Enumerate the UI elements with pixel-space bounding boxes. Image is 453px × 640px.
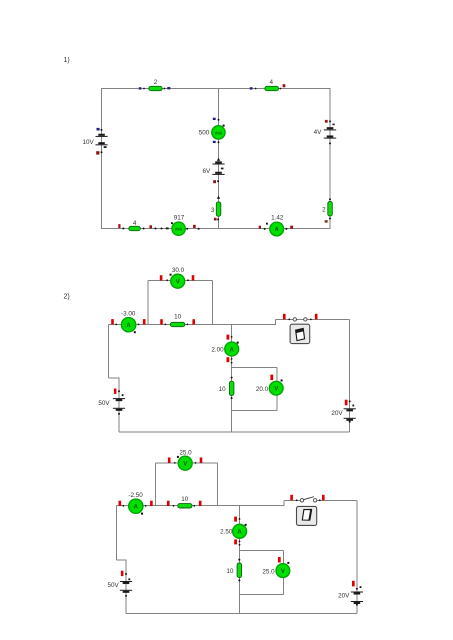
wire switch line left: [284, 499, 300, 501]
resistor 3 (middle): [211, 196, 221, 221]
svg-text:10V: 10V: [82, 139, 94, 146]
ammeter 2.50: [220, 517, 246, 546]
resistor 2 (right): [322, 198, 332, 222]
switch S (closed): [283, 314, 318, 321]
svg-text:4: 4: [270, 79, 274, 86]
ammeter -3.00: [111, 311, 145, 334]
wire subloop bottom: [232, 410, 277, 412]
wire subloop bottom: [239, 593, 283, 595]
wire top-loop top: [156, 462, 218, 464]
wire top-loop left leg: [147, 280, 149, 324]
battery 10V: [82, 128, 107, 155]
svg-text:4: 4: [133, 220, 137, 227]
voltmeter 20.0: [256, 375, 283, 396]
wire left leg upper: [108, 324, 110, 378]
wire main horizontal: [109, 323, 277, 325]
wire step up: [275, 319, 277, 324]
svg-text:30.0: 30.0: [172, 267, 185, 274]
wire top-loop right leg: [212, 280, 214, 324]
svg-text:3: 3: [211, 207, 215, 214]
svg-text:A: A: [126, 323, 131, 329]
voltmeter 25.0 (top): [168, 449, 202, 470]
wire middle branch: [238, 506, 240, 614]
svg-text:10: 10: [174, 314, 182, 321]
svg-text:10: 10: [181, 496, 189, 503]
switch key box: [290, 324, 310, 343]
svg-text:25.0: 25.0: [179, 449, 192, 456]
wire top: [102, 88, 331, 90]
wire subloop top: [239, 550, 283, 552]
wire top-loop right leg: [217, 463, 219, 506]
resistor 10 (vertical): [219, 377, 234, 400]
wire right leg: [349, 319, 351, 432]
ammeter 2.00: [211, 335, 238, 364]
svg-text:V: V: [274, 387, 278, 393]
battery 20V (c2): [331, 400, 355, 423]
svg-text:2: 2: [154, 79, 158, 86]
svg-text:2): 2): [64, 294, 70, 301]
resistor 10 (horizontal): [167, 496, 202, 508]
svg-text:1.42: 1.42: [271, 215, 284, 222]
voltmeter 25.0 (inner): [262, 557, 289, 577]
svg-text:-2.50: -2.50: [128, 492, 143, 499]
battery 20V (c3): [338, 581, 363, 606]
svg-text:2.50: 2.50: [220, 529, 233, 536]
svg-text:1): 1): [64, 57, 70, 64]
wire bottom: [126, 613, 357, 615]
resistor 10 (vertical): [226, 559, 241, 582]
svg-text:20.0: 20.0: [256, 386, 269, 393]
wire step up: [283, 500, 285, 505]
wire subloop right: [282, 551, 284, 595]
svg-text:2.00: 2.00: [211, 346, 224, 353]
wire top-loop left leg: [155, 463, 157, 506]
battery 50V (c3): [107, 571, 132, 597]
svg-text:25.0: 25.0: [262, 568, 275, 575]
battery 4V: [314, 120, 337, 144]
svg-text:A: A: [237, 530, 242, 536]
wire left leg upper: [115, 506, 117, 561]
ammeter -2.50: [119, 492, 153, 514]
resistor 4 (top): [250, 79, 286, 91]
resistor 10 (horizontal): [160, 314, 195, 327]
wire subloop right: [276, 368, 278, 411]
wire middle branch: [231, 324, 233, 432]
resistor 2 (top): [139, 79, 171, 91]
wire main horizontal: [116, 505, 284, 507]
wire subloop top: [232, 367, 277, 369]
wire left jog: [116, 559, 126, 561]
battery 50V (c2): [98, 389, 125, 415]
svg-text:2: 2: [322, 207, 326, 214]
wire left leg lower: [125, 560, 127, 614]
wire middle branch: [218, 89, 220, 229]
wire top-loop top: [148, 279, 213, 281]
svg-text:V: V: [183, 462, 187, 468]
svg-text:917: 917: [174, 214, 185, 221]
wire bottom: [102, 228, 331, 230]
wire switch line right: [317, 499, 357, 501]
svg-text:10: 10: [226, 568, 234, 575]
voltmeter 30.0: [160, 267, 195, 288]
svg-text:A: A: [134, 505, 139, 511]
wire right leg: [356, 500, 358, 613]
svg-text:4V: 4V: [314, 129, 323, 136]
svg-text:A: A: [275, 227, 279, 233]
wire switch line: [276, 318, 350, 320]
svg-text:6V: 6V: [202, 168, 211, 175]
svg-text:V: V: [176, 280, 180, 286]
ammeter 500 mA (middle): [199, 118, 225, 144]
svg-text:mA: mA: [175, 227, 183, 232]
svg-text:50V: 50V: [98, 400, 110, 407]
wire bottom: [119, 431, 350, 433]
wire left: [101, 88, 103, 229]
resistor 4 (bottom): [118, 220, 168, 231]
svg-text:500: 500: [199, 129, 210, 136]
svg-text:20V: 20V: [331, 410, 343, 417]
wire right: [329, 88, 331, 229]
switch S (open): [290, 495, 324, 502]
wire left leg lower: [118, 378, 120, 432]
svg-text:10: 10: [219, 386, 227, 393]
svg-text:-3.00: -3.00: [121, 311, 136, 318]
svg-text:mA: mA: [215, 130, 223, 135]
ammeter 1.42 A (bottom): [259, 215, 293, 236]
svg-text:V: V: [281, 569, 285, 575]
switch key box: [297, 506, 317, 525]
svg-text:20V: 20V: [338, 593, 350, 600]
ammeter 917 mA (bottom): [171, 214, 200, 235]
svg-text:50V: 50V: [107, 582, 119, 589]
svg-text:A: A: [230, 347, 235, 353]
battery 6V: [202, 158, 224, 183]
wire left jog: [109, 377, 119, 379]
